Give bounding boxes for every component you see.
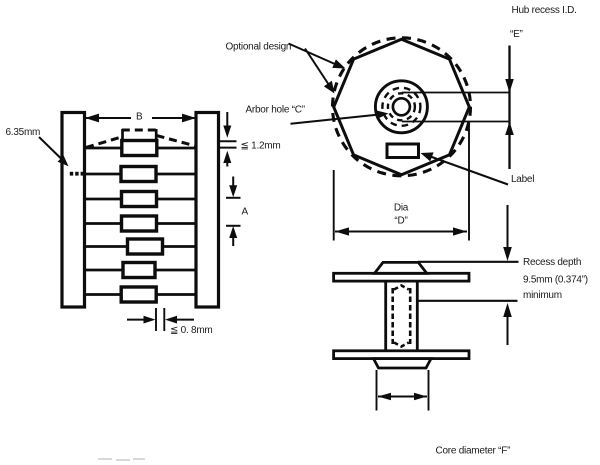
- hub rect row 6: [123, 263, 155, 278]
- faint scan smudge bottom left: [98, 459, 145, 460]
- hub rect row 2: [121, 167, 156, 182]
- disk line 1: [85, 147, 197, 150]
- dim A down arrowhead: [229, 185, 237, 197]
- svg-text:Recess depth: Recess depth: [523, 257, 581, 268]
- dim 0.8mm left arrowhead: [144, 316, 156, 324]
- optional design leader 2 arrowhead: [324, 81, 335, 94]
- dimension B line left: [85, 117, 131, 119]
- arbor hole circle: [393, 98, 410, 115]
- hub rect row 4: [122, 216, 157, 231]
- core diameter dimension line: [378, 396, 427, 398]
- hub dashed ring inner: [388, 93, 415, 120]
- section core right wall: [416, 281, 419, 350]
- optional design leader 1: [289, 44, 337, 65]
- core diameter left extension line: [376, 370, 378, 411]
- Dia D right arrowhead: [453, 227, 467, 235]
- dim 1.2mm down arrow tail: [226, 112, 228, 128]
- 6.35mm leader line: [39, 137, 62, 159]
- svg-text:6.35mm: 6.35mm: [6, 127, 41, 138]
- raised hub right edge: [155, 129, 158, 140]
- Dia D left arrowhead: [335, 227, 349, 235]
- section top flange: [334, 273, 469, 281]
- dim A upper tick: [226, 197, 241, 199]
- dimension B arrow left: [85, 114, 99, 123]
- core diameter right extension line: [428, 370, 430, 411]
- label rectangle: [387, 144, 419, 158]
- E upper reference line: [402, 92, 510, 94]
- svg-text:Arbor hole “C”: Arbor hole “C”: [246, 105, 305, 116]
- svg-text:A: A: [242, 207, 249, 218]
- optional design leader 1 arrowhead: [332, 59, 345, 68]
- raised hub left edge: [121, 129, 124, 142]
- section bottom flange: [334, 351, 469, 359]
- section dashed bore bottom chevron: [394, 343, 409, 347]
- octagon disk outline: [334, 39, 470, 175]
- hub rect row 5 (offset): [128, 239, 163, 254]
- section dashed bore right: [409, 288, 412, 344]
- disk line 5: [85, 245, 197, 248]
- svg-text:“D”: “D”: [394, 216, 407, 227]
- E down arrowhead: [505, 79, 514, 93]
- svg-text:“E”: “E”: [510, 29, 523, 40]
- svg-text:Hub recess I.D.: Hub recess I.D.: [512, 5, 577, 16]
- dim 0.8mm right tick: [163, 308, 165, 331]
- E lower reference line: [402, 121, 510, 123]
- recess depth lower reference line: [419, 300, 518, 302]
- dashed raised disk right diagonal: [157, 136, 196, 147]
- section hub cap trapezoid: [375, 262, 427, 273]
- svg-text:Label: Label: [511, 174, 534, 185]
- svg-text:B: B: [136, 112, 143, 123]
- disk line 6: [85, 269, 197, 272]
- arbor hole leader arrowhead: [376, 110, 389, 119]
- dim 1.2mm up arrowhead: [223, 151, 231, 163]
- label leader line: [429, 156, 508, 185]
- disk line 2: [85, 173, 197, 176]
- core diameter left arrowhead: [378, 393, 391, 401]
- hub rect row 3: [122, 192, 157, 207]
- dimension B arrow right: [182, 114, 196, 123]
- dim 1.2mm up arrow tail: [226, 160, 228, 167]
- disk line 3: [85, 198, 197, 201]
- optional design leader 2: [305, 49, 329, 86]
- hub dashed ring outer: [382, 88, 420, 126]
- dim 0.8mm right arrow line: [176, 319, 194, 321]
- disk line 7: [85, 293, 197, 296]
- svg-text:≦ 0. 8mm: ≦ 0. 8mm: [170, 325, 213, 336]
- Dia D left extension line: [333, 170, 335, 241]
- recess depth up arrowhead: [503, 303, 512, 317]
- svg-text:≦ 1.2mm: ≦ 1.2mm: [241, 141, 281, 152]
- dim 0.8mm right arrowhead: [165, 316, 177, 324]
- dashed disk circle (top view): [333, 38, 471, 176]
- Dia D dimension line: [335, 231, 467, 233]
- arbor hole leader line: [291, 115, 379, 124]
- 6.35mm dotted mark 1: [70, 172, 73, 176]
- dim A up arrowhead: [229, 226, 237, 238]
- svg-text:9.5mm (0.374”): 9.5mm (0.374”): [523, 275, 588, 286]
- 6.35mm leader arrowhead: [58, 156, 69, 167]
- svg-text:Dia: Dia: [394, 203, 409, 214]
- E up arrowhead: [505, 122, 514, 136]
- hub rect row 7: [121, 287, 156, 302]
- svg-text:Optional design: Optional design: [226, 42, 292, 53]
- recess depth up arrow tail: [507, 314, 509, 345]
- section dashed bore left: [391, 288, 394, 344]
- core diameter right arrowhead: [414, 393, 427, 401]
- dashed raised hub top edge: [122, 129, 157, 132]
- dim 0.8mm left arrow line: [127, 319, 146, 321]
- recess depth down arrowhead: [503, 247, 512, 261]
- dim 1.2mm upper tick: [220, 140, 237, 142]
- 6.35mm dotted mark 3: [81, 172, 84, 176]
- E dimension vertical line: [508, 46, 510, 170]
- svg-text:Core diameter “F”: Core diameter “F”: [436, 446, 511, 457]
- dim A up arrow tail: [232, 235, 234, 246]
- dim 1.2mm down arrowhead: [223, 126, 231, 138]
- dim 0.8mm left tick: [155, 308, 157, 331]
- hub outer ring: [375, 81, 427, 133]
- left flange bar: [62, 113, 85, 308]
- section dashed bore top chevron: [394, 286, 409, 290]
- dimension B line right: [152, 117, 196, 119]
- recess depth upper reference line: [418, 261, 519, 263]
- section bottom boss trapezoid: [374, 359, 432, 368]
- svg-text:minimum: minimum: [523, 290, 562, 301]
- dim A lower tick: [226, 225, 241, 227]
- label leader arrowhead: [421, 152, 434, 161]
- dim 1.2mm lower tick: [220, 147, 237, 149]
- dim A down arrow tail: [232, 177, 234, 189]
- disk line 4: [85, 222, 197, 225]
- right flange bar: [196, 113, 219, 308]
- section core left wall: [384, 281, 387, 350]
- 6.35mm dotted mark 2: [75, 172, 78, 176]
- Dia D right extension line: [468, 124, 470, 241]
- hub rect row 1: [122, 141, 157, 156]
- recess depth down arrow tail: [507, 205, 509, 248]
- dashed raised disk left diagonal: [86, 137, 122, 148]
